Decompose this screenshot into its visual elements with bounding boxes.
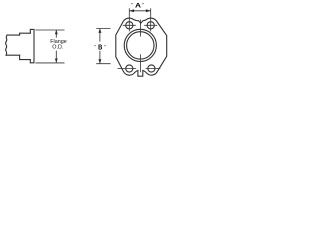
- svg-text:O.D.: O.D.: [52, 45, 63, 51]
- svg-text:”: ”: [131, 3, 133, 9]
- svg-text:B: B: [98, 43, 102, 52]
- svg-text:A: A: [135, 2, 142, 9]
- svg-text:”: ”: [142, 3, 144, 9]
